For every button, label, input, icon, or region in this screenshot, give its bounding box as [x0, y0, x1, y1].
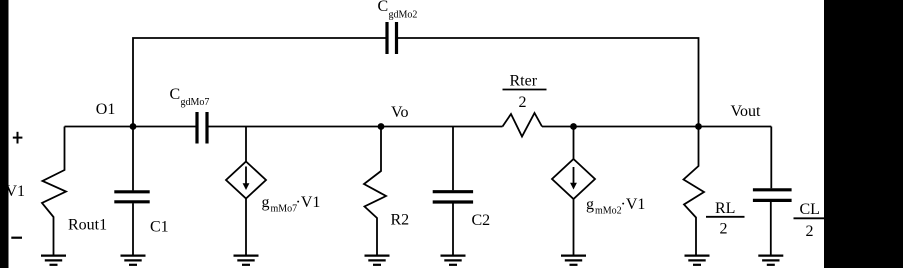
capacitor C1 [114, 192, 149, 202]
label plus sign [13, 132, 23, 144]
svg-text:mMo7: mMo7 [271, 204, 298, 215]
svg-text:C: C [378, 0, 389, 15]
label CgdMo7 [170, 86, 210, 108]
left border bar [0, 0, 9, 268]
svg-text:g: g [262, 194, 270, 211]
wire C1 branch [132, 127, 134, 256]
wire gmMo2 branch top [573, 127, 575, 160]
resistor Rter/2 [503, 113, 543, 137]
svg-text:Vout: Vout [731, 103, 761, 120]
svg-text:2: 2 [720, 221, 728, 238]
label gmMo2·V1 [586, 196, 645, 217]
svg-text:C: C [170, 86, 181, 103]
wire main left (O1 node to CgdMo7) [65, 126, 196, 128]
label RL/2 [706, 200, 745, 238]
ground (Rout1) [41, 256, 66, 265]
ground (CL) [758, 256, 783, 265]
svg-text:·V1: ·V1 [296, 194, 321, 211]
capacitor CgdMo2 [387, 22, 397, 54]
label gmMo7·V1 [262, 194, 321, 215]
capacitor CgdMo7 [197, 112, 207, 144]
label CL/2 [794, 201, 826, 240]
wire gmMo7 branch bottom [245, 199, 247, 256]
wire top-left (O1 to CgdMo2) [133, 38, 386, 127]
label minus sign [11, 237, 22, 239]
capacitor CL [753, 190, 792, 201]
svg-text:R2: R2 [391, 212, 410, 229]
svg-text:RL: RL [715, 200, 735, 217]
svg-text:2: 2 [806, 223, 814, 240]
svg-text:gdMo7: gdMo7 [181, 97, 210, 108]
wire gmMo7 branch top [245, 127, 247, 162]
ground (C1) [121, 256, 146, 265]
wire C2 branch [452, 127, 454, 256]
svg-text:Rout1: Rout1 [68, 217, 107, 234]
node junction Rter/gmMo2 [570, 123, 577, 130]
svg-text:Rter: Rter [510, 73, 538, 90]
svg-text:Vo: Vo [391, 104, 409, 121]
ground (RL) [685, 256, 710, 265]
wire CL branch [770, 127, 773, 256]
svg-text:O1: O1 [96, 101, 116, 118]
svg-text:V1: V1 [6, 183, 26, 200]
right border block [824, 0, 903, 268]
wire main right (Rter to CL corner) [542, 126, 771, 128]
svg-text:2: 2 [519, 94, 527, 111]
label CgdMo2 [378, 0, 418, 20]
svg-text:mMo2: mMo2 [595, 206, 622, 217]
ground (gmMo7) [234, 256, 259, 265]
svg-text:gdMo2: gdMo2 [389, 9, 418, 20]
svg-text:CL: CL [800, 201, 820, 218]
svg-text:g: g [586, 196, 594, 213]
node Vo [378, 123, 385, 130]
node O1 [130, 123, 137, 130]
resistor Rout1 [42, 127, 66, 256]
wire main middle (CgdMo7 to Rter) [209, 126, 503, 128]
wire gmMo2 branch bottom [573, 199, 575, 256]
label Rter/2 [503, 73, 547, 112]
ground (C2) [441, 256, 466, 265]
svg-text:C2: C2 [472, 212, 491, 229]
wire top-right (CgdMo2 to Vout) [398, 38, 699, 127]
dependent current source gmMo2*V1 (diamond) [552, 159, 595, 199]
node Vout [695, 123, 702, 130]
resistor R2 [364, 127, 386, 256]
dependent current source gmMo7*V1 (diamond) [226, 162, 266, 199]
svg-text:C1: C1 [150, 219, 169, 236]
resistor RL/2 [684, 127, 705, 256]
ground (gmMo2) [561, 256, 586, 265]
svg-text:·V1: ·V1 [621, 196, 646, 213]
ground (R2) [365, 256, 390, 265]
capacitor C2 [433, 192, 473, 202]
